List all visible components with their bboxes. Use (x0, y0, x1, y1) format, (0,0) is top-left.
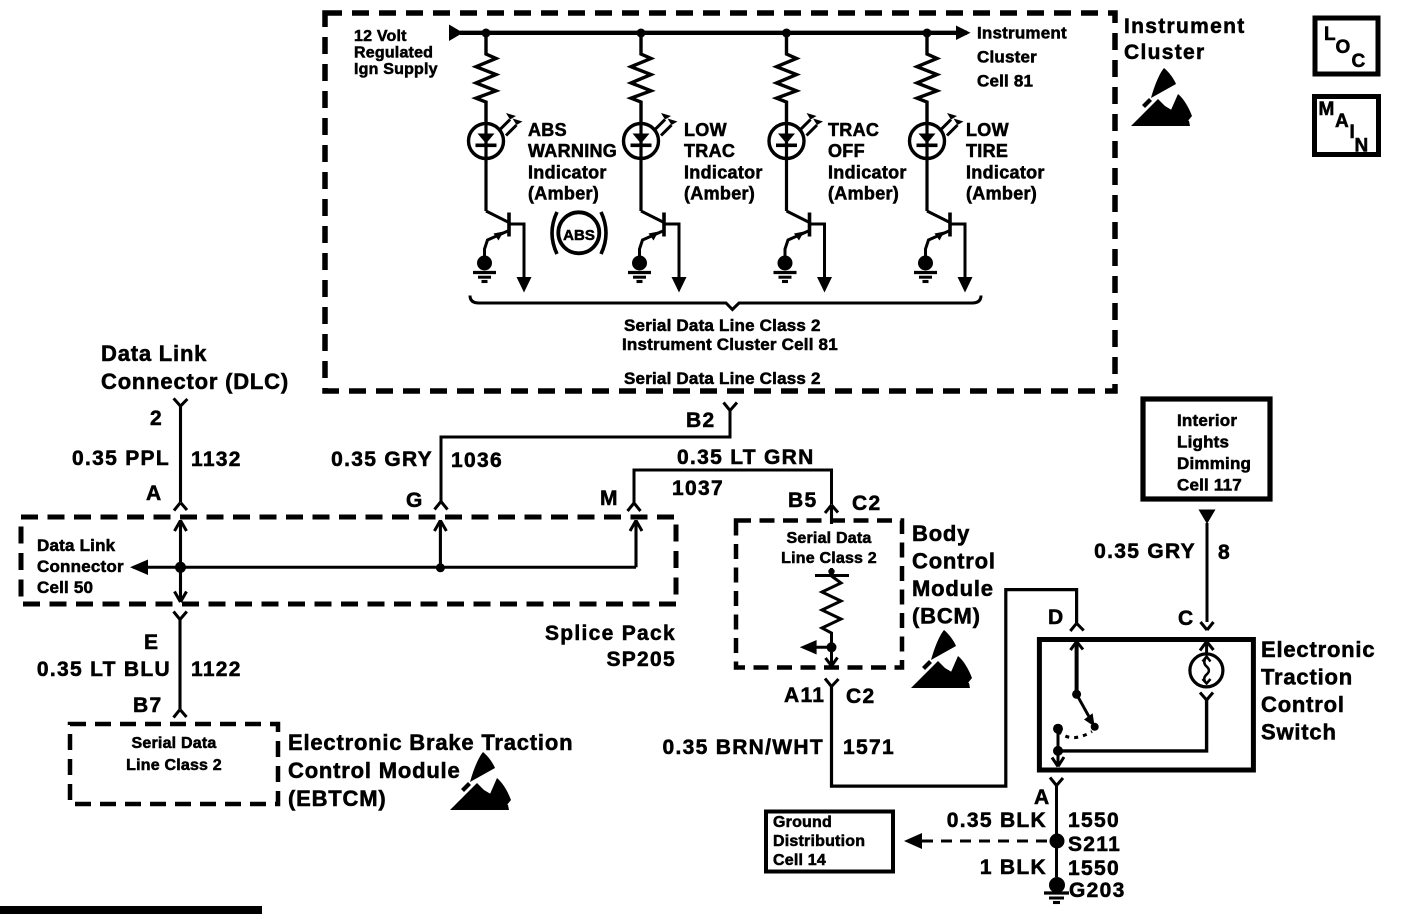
connector chevron B7 (174, 710, 187, 718)
svg-text:(Amber): (Amber) (528, 184, 599, 204)
svg-text:A11: A11 (784, 684, 825, 707)
junction dot G wire (436, 563, 445, 572)
switch blade (1077, 694, 1089, 716)
svg-text:1571: 1571 (843, 736, 895, 759)
ABS warning indicator branch (469, 29, 532, 293)
svg-text:Control: Control (1261, 692, 1345, 717)
svg-text:Traction: Traction (1261, 665, 1353, 690)
svg-text:O: O (1336, 37, 1351, 58)
svg-text:Interior: Interior (1177, 411, 1237, 430)
svg-text:1036: 1036 (451, 449, 503, 472)
svg-text:E: E (144, 631, 159, 654)
EBTCM dashed box (70, 724, 278, 804)
TRAC OFF indicator branch (769, 29, 832, 293)
LOW TRAC indicator branch (624, 29, 687, 293)
ground distribution cell 14 box (766, 812, 893, 872)
svg-text:1132: 1132 (191, 448, 242, 471)
connector chevron A (174, 503, 187, 511)
ground G203 (1049, 877, 1065, 893)
svg-text:12 Volt: 12 Volt (354, 28, 407, 45)
svg-text:0.35 GRY: 0.35 GRY (1094, 540, 1196, 563)
svg-text:Electronic: Electronic (1261, 637, 1375, 662)
svg-text:1037: 1037 (672, 477, 724, 500)
svg-text:ABS: ABS (528, 120, 567, 140)
BCM dashed box (736, 521, 902, 668)
EBTCM ESD symbol (450, 752, 511, 810)
BCM down arrowhead (826, 658, 838, 667)
12V bus wire (460, 31, 967, 35)
svg-text:C: C (1352, 51, 1366, 72)
svg-text:0.35 BLK: 0.35 BLK (947, 809, 1047, 832)
switch contact dot (1072, 690, 1081, 699)
svg-text:TRAC: TRAC (828, 120, 879, 140)
svg-text:0.35 PPL: 0.35 PPL (72, 447, 170, 470)
svg-text:1 BLK: 1 BLK (980, 856, 1047, 879)
dotted travel arc (1058, 731, 1092, 738)
lamp bottom fork (1200, 693, 1213, 701)
svg-text:0.35 LT BLU: 0.35 LT BLU (37, 658, 171, 681)
chevron G (435, 502, 448, 510)
bus left arrow (449, 25, 463, 42)
brace under branches (470, 296, 981, 310)
svg-text:C: C (1178, 607, 1194, 630)
splice vertical wire A-E (179, 520, 182, 602)
svg-text:Indicator: Indicator (828, 163, 907, 183)
svg-text:OFF: OFF (828, 141, 865, 161)
svg-text:Indicator: Indicator (966, 163, 1045, 183)
svg-text:A: A (1335, 111, 1349, 132)
svg-text:SP205: SP205 (606, 648, 676, 671)
D entry arrow (1071, 642, 1084, 651)
svg-text:L: L (1324, 24, 1336, 45)
fork A (switch) (1050, 778, 1063, 786)
wire B2 to G (441, 411, 730, 502)
svg-text:C2: C2 (852, 492, 881, 515)
svg-text:1122: 1122 (191, 658, 242, 681)
interior lights dimming box (1143, 399, 1270, 499)
left arrow to cell 50 (130, 560, 148, 576)
wire 1132 PPL (179, 406, 182, 502)
svg-text:Indicator: Indicator (684, 163, 763, 183)
triangle from dimming box (1199, 510, 1216, 525)
svg-text:WARNING: WARNING (528, 141, 617, 161)
wire 1122 LT BLU (178, 620, 181, 710)
MAIN legend box (1315, 97, 1379, 155)
svg-text:D: D (1048, 606, 1064, 629)
page edge bar (0, 906, 262, 914)
svg-text:Cell 14: Cell 14 (773, 852, 826, 869)
svg-text:Control Module: Control Module (288, 758, 461, 783)
instrument cluster ESD symbol (1131, 68, 1192, 126)
svg-text:(BCM): (BCM) (912, 604, 981, 629)
wire 8 GRY (1206, 523, 1209, 622)
svg-text:Ign Supply: Ign Supply (354, 61, 438, 78)
svg-text:TRAC: TRAC (684, 141, 735, 161)
svg-text:Instrument: Instrument (1124, 15, 1246, 38)
svg-text:1550: 1550 (1068, 809, 1120, 832)
chevron D (1070, 623, 1083, 631)
svg-text:Control: Control (912, 549, 996, 574)
svg-text:0.35 BRN/WHT: 0.35 BRN/WHT (663, 736, 824, 759)
svg-text:B7: B7 (133, 694, 162, 717)
svg-text:G203: G203 (1069, 879, 1126, 902)
connector fork E (174, 612, 187, 620)
svg-text:Cluster: Cluster (1124, 41, 1205, 64)
bus right arrow (956, 26, 971, 41)
svg-text:S211: S211 (1068, 833, 1121, 856)
switch bottom wire (1058, 699, 1207, 751)
svg-text:Serial Data Line Class 2: Serial Data Line Class 2 (624, 316, 821, 335)
svg-text:0.35 GRY: 0.35 GRY (331, 448, 433, 471)
svg-text:8: 8 (1218, 541, 1231, 564)
fork B5 (825, 505, 838, 513)
switch left contact (1053, 724, 1063, 734)
svg-text:Cell 50: Cell 50 (37, 578, 93, 597)
fork A11 (825, 679, 839, 687)
ABS telltale symbol (558, 212, 599, 253)
svg-text:Line Class 2: Line Class 2 (781, 550, 877, 567)
svg-text:Cell 117: Cell 117 (1177, 476, 1242, 495)
connector fork B2 (724, 403, 738, 411)
svg-text:Switch: Switch (1261, 720, 1337, 745)
svg-text:Regulated: Regulated (354, 45, 433, 62)
svg-text:(Amber): (Amber) (684, 184, 755, 204)
svg-text:Line Class 2: Line Class 2 (126, 757, 222, 774)
svg-text:LOW: LOW (684, 120, 727, 140)
svg-text:1550: 1550 (1068, 857, 1120, 880)
up arrowhead (175, 521, 187, 532)
svg-text:(Amber): (Amber) (828, 184, 899, 204)
BCM ESD symbol (911, 630, 972, 688)
wire M to B5 (634, 470, 832, 505)
svg-text:Cluster: Cluster (977, 48, 1037, 67)
down arrowhead (175, 592, 187, 603)
svg-text:Dimming: Dimming (1177, 454, 1251, 473)
svg-text:Splice Pack: Splice Pack (545, 622, 676, 645)
splice horizontal wire (133, 566, 636, 569)
svg-text:Indicator: Indicator (528, 163, 607, 183)
wire stub into BCM (830, 505, 833, 524)
junction dot DLC wire (175, 562, 186, 573)
svg-text:Ground: Ground (773, 814, 832, 831)
svg-text:Connector: Connector (37, 557, 124, 576)
svg-text:Serial Data Line Class 2: Serial Data Line Class 2 (624, 369, 821, 388)
svg-text:Distribution: Distribution (773, 833, 865, 850)
BCM left arrow (814, 646, 832, 649)
wire A11 to D (832, 590, 1077, 787)
LOC legend box (1315, 18, 1378, 74)
svg-text:Cell 81: Cell 81 (977, 72, 1033, 91)
M vertical wire in splice (634, 520, 637, 567)
G vertical wire in splice (439, 520, 442, 567)
svg-text:Electronic Brake Traction: Electronic Brake Traction (288, 730, 573, 755)
svg-text:(EBTCM): (EBTCM) (288, 786, 386, 811)
svg-text:Serial Data: Serial Data (132, 735, 217, 752)
svg-text:(Amber): (Amber) (966, 184, 1037, 204)
svg-text:A: A (1034, 786, 1050, 809)
svg-text:Data Link: Data Link (37, 536, 116, 555)
splice S211 (1050, 834, 1065, 849)
C entry arrow (1200, 642, 1214, 651)
svg-text:ABS: ABS (563, 227, 595, 244)
svg-text:Module: Module (912, 576, 994, 601)
LOW TIRE indicator branch (910, 29, 973, 293)
svg-text:M: M (600, 487, 619, 510)
BCM junction dot (827, 642, 837, 652)
fork C (1201, 622, 1214, 630)
svg-text:LOW: LOW (966, 120, 1009, 140)
svg-text:0.35 LT GRN: 0.35 LT GRN (677, 446, 815, 469)
svg-text:TIRE: TIRE (966, 141, 1008, 161)
BCM internal resistor (830, 568, 833, 576)
ground wire (1055, 786, 1058, 878)
svg-text:G: G (406, 489, 424, 512)
svg-text:Data Link: Data Link (101, 341, 207, 366)
lamp (1190, 654, 1223, 687)
dashed wire to ground distribution (922, 840, 1050, 843)
svg-text:C2: C2 (846, 685, 875, 708)
svg-text:Connector (DLC): Connector (DLC) (101, 369, 289, 394)
instrument cluster dashed box (325, 13, 1115, 391)
svg-text:B2: B2 (686, 409, 715, 432)
switch exit arrow (1057, 751, 1060, 766)
svg-text:M: M (1319, 99, 1335, 120)
svg-text:2: 2 (150, 407, 163, 430)
splice pack dashed box (21, 517, 676, 604)
svg-text:N: N (1355, 136, 1369, 157)
svg-text:Serial Data: Serial Data (787, 530, 872, 547)
svg-text:A: A (146, 482, 162, 505)
svg-text:Lights: Lights (1177, 433, 1229, 452)
svg-text:B5: B5 (788, 489, 817, 512)
DLC pin 2 connector fork (174, 398, 188, 406)
traction switch box (1039, 640, 1253, 771)
svg-text:Instrument: Instrument (977, 24, 1067, 43)
common stub (1057, 729, 1060, 751)
svg-text:Body: Body (912, 521, 970, 546)
chevron M (628, 503, 641, 511)
svg-text:Instrument Cluster Cell 81: Instrument Cluster Cell 81 (622, 335, 838, 354)
